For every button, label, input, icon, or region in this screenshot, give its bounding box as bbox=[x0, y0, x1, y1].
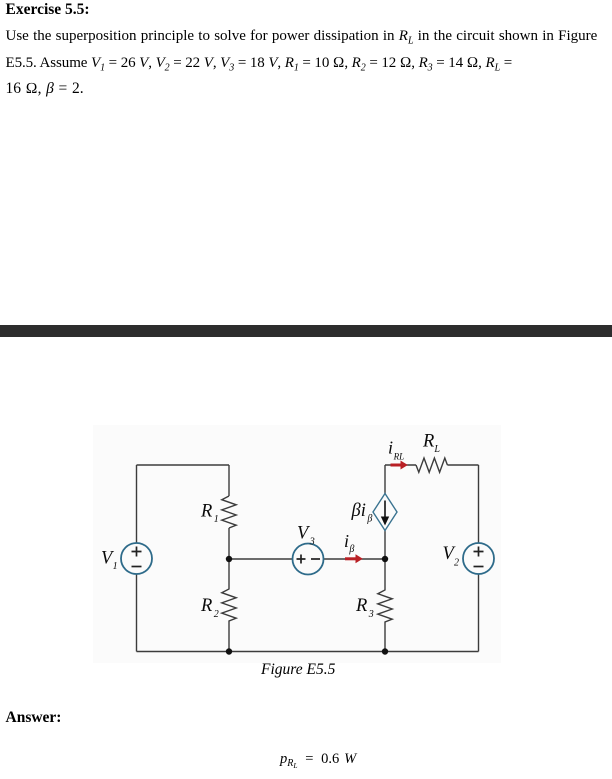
voltage source V3 bbox=[293, 544, 324, 575]
wire R1 to mid node bbox=[228, 528, 230, 559]
voltage source V2 bbox=[463, 543, 494, 574]
paragraph line 1 bbox=[6, 28, 598, 45]
wire R1 branch top bbox=[228, 465, 230, 496]
resistor R1 bbox=[222, 496, 236, 528]
svg-text:R: R bbox=[355, 596, 367, 616]
paragraph line 2 bbox=[6, 55, 513, 72]
resistor R3 bbox=[378, 559, 392, 652]
current arrow i_RL bbox=[391, 461, 408, 470]
svg-text:β: β bbox=[366, 514, 372, 525]
wire RL to right rail bbox=[447, 464, 478, 466]
resistor R2 bbox=[222, 559, 236, 652]
title bbox=[6, 1, 90, 19]
wire dep diamond to node bbox=[384, 531, 386, 560]
svg-text:1: 1 bbox=[113, 561, 118, 572]
voltage source V1 bbox=[121, 543, 152, 574]
current arrow i_beta bbox=[345, 554, 363, 563]
figure caption bbox=[261, 661, 335, 679]
svg-text:R: R bbox=[422, 432, 434, 452]
node dot mid-right bbox=[382, 556, 388, 562]
wire left rail top bbox=[136, 465, 138, 543]
resistor RL bbox=[416, 458, 447, 472]
svg-text:RL: RL bbox=[393, 451, 405, 461]
wire top-left bbox=[137, 464, 230, 466]
divider bar bbox=[0, 325, 612, 337]
paragraph line 3 bbox=[6, 80, 84, 98]
wire right rail top bbox=[478, 465, 480, 543]
node dot mid-left bbox=[226, 556, 232, 562]
svg-text:3: 3 bbox=[368, 609, 374, 620]
svg-text:i: i bbox=[388, 438, 393, 458]
wire top-right to RL bbox=[385, 464, 416, 466]
wire mid node to V3 bbox=[229, 558, 293, 560]
dependent source arrow bbox=[384, 501, 386, 519]
Answer heading bbox=[6, 709, 62, 727]
node dot bottom-left bbox=[226, 648, 232, 654]
answer formula bbox=[280, 751, 356, 768]
svg-text:3: 3 bbox=[309, 536, 315, 547]
wire dep branch top bbox=[384, 465, 386, 494]
dependent source diamond bbox=[373, 494, 397, 531]
svg-text:R: R bbox=[200, 596, 212, 616]
wire right rail bottom bbox=[478, 574, 480, 652]
svg-text:1: 1 bbox=[214, 514, 219, 525]
svg-text:L: L bbox=[433, 444, 440, 455]
svg-text:2: 2 bbox=[454, 557, 459, 568]
wire bottom rail bbox=[137, 651, 479, 653]
svg-text:i: i bbox=[344, 531, 349, 551]
node dot bottom-right bbox=[382, 648, 388, 654]
svg-text:β: β bbox=[348, 544, 354, 555]
wire V3 to dep node bbox=[324, 558, 386, 560]
svg-text:2: 2 bbox=[214, 609, 219, 620]
circuit figure bbox=[93, 425, 501, 663]
wire left rail bottom bbox=[136, 574, 138, 652]
svg-text:βi: βi bbox=[351, 501, 366, 521]
svg-text:R: R bbox=[200, 502, 212, 522]
